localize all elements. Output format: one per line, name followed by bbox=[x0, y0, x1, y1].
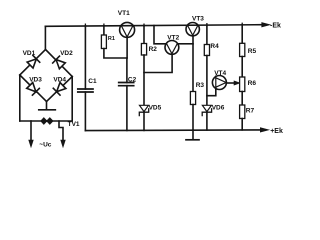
zener VD6 bbox=[202, 105, 211, 111]
wire transformer left tap bbox=[30, 121, 32, 140]
node top bus arrow -Ek bbox=[262, 23, 270, 27]
svg-text:R6: R6 bbox=[248, 80, 257, 87]
wire bridge edge L-Y bbox=[20, 75, 47, 102]
svg-text:VD2: VD2 bbox=[60, 50, 73, 57]
diode VD3 bbox=[26, 82, 39, 95]
node mains arrow left bbox=[29, 140, 34, 147]
resistor R7 bbox=[241, 92, 243, 106]
resistor R3 bbox=[190, 92, 195, 105]
transistor VT2 bbox=[165, 41, 179, 55]
wire VT2 base feed bbox=[154, 26, 165, 44]
wire transformer secondary line bbox=[20, 120, 41, 122]
resistor R4 bbox=[206, 25, 208, 44]
node bottom bus arrow +Ek bbox=[260, 128, 268, 132]
wire bridge left vertex down bbox=[19, 75, 21, 121]
diode VD1 bbox=[27, 55, 40, 68]
resistor R1 bbox=[103, 26, 105, 35]
svg-text:VD1: VD1 bbox=[23, 50, 36, 57]
node junction ticks on top bus bbox=[85, 23, 242, 26]
wire R4 column to VT4 base bbox=[207, 88, 216, 96]
resistor R2 bbox=[143, 26, 145, 44]
resistor R6 bbox=[241, 57, 243, 78]
svg-text:VD5: VD5 bbox=[149, 105, 162, 112]
resistor R5 bbox=[241, 25, 243, 44]
svg-text:VT3: VT3 bbox=[192, 16, 204, 23]
wire VT4 emitter to R6 wiper bbox=[226, 82, 234, 84]
svg-text:VD3: VD3 bbox=[29, 77, 42, 84]
ground (bottom) bbox=[186, 139, 199, 141]
svg-text:R7: R7 bbox=[246, 107, 255, 114]
wire VT2 collector to VT3 emitter column bbox=[179, 43, 193, 45]
capacitor C2 bbox=[126, 58, 128, 83]
ground (bridge) bbox=[39, 109, 56, 111]
diode VD4 bbox=[53, 82, 66, 95]
transistor VT4 bbox=[212, 76, 226, 90]
svg-text:+Ek: +Ek bbox=[270, 128, 283, 135]
svg-text:R4: R4 bbox=[210, 43, 219, 50]
svg-text:R3: R3 bbox=[196, 82, 205, 89]
wire VT2 emitter down-left bbox=[144, 54, 172, 72]
diode VD2 bbox=[53, 56, 66, 69]
svg-text:R5: R5 bbox=[248, 48, 257, 55]
svg-text:VD6: VD6 bbox=[212, 104, 225, 111]
wire bridge right vertex down bbox=[53, 77, 72, 122]
svg-text:VT2: VT2 bbox=[167, 35, 179, 42]
svg-text:R1: R1 bbox=[108, 36, 115, 42]
svg-text:C2: C2 bbox=[128, 76, 137, 83]
node mains arrow right bbox=[61, 140, 66, 147]
wire bridge edge T-R bbox=[46, 50, 73, 77]
wire bottom bus bbox=[85, 129, 260, 132]
transistor VT1 bbox=[120, 22, 135, 37]
wire bridge Y to ground bbox=[46, 102, 48, 110]
svg-text:VT4: VT4 bbox=[214, 70, 226, 77]
svg-text:R2: R2 bbox=[149, 46, 158, 53]
wire top bus bbox=[45, 25, 262, 27]
wire transformer step right bbox=[59, 121, 63, 140]
zener VD5 bbox=[140, 105, 149, 111]
wire VT3 emitter down bbox=[192, 36, 194, 92]
transistor VT3 bbox=[186, 23, 199, 36]
wire bridge edge L-T bbox=[20, 50, 46, 76]
svg-text:TV1: TV1 bbox=[68, 121, 80, 128]
wire bridge top vertex to bus bbox=[44, 26, 46, 49]
svg-text:~Uc: ~Uc bbox=[39, 142, 51, 149]
transformer TV1 winding bbox=[41, 118, 53, 124]
wire ground stem bbox=[192, 130, 194, 139]
svg-text:C1: C1 bbox=[88, 78, 97, 85]
svg-text:VD4: VD4 bbox=[53, 77, 66, 84]
svg-text:VT1: VT1 bbox=[118, 10, 130, 17]
svg-text:-Ek: -Ek bbox=[270, 23, 281, 30]
wire bridge edge R-Y bbox=[47, 77, 73, 102]
capacitor C1 bbox=[84, 26, 86, 89]
